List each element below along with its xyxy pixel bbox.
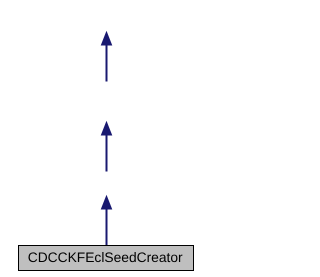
arrow 1 (top inheritance arrow) — [101, 31, 113, 82]
inheritance diagram for CDCCKFEclSeedCreator — [0, 0, 213, 277]
arrow 2 (middle inheritance arrow) — [101, 121, 113, 172]
svg-text:CDCCKFEclSeedCreator: CDCCKFEclSeedCreator — [28, 250, 183, 265]
class box CDCCKFEclSeedCreator — [19, 246, 194, 271]
arrow 3 (bottom inheritance arrow) — [101, 195, 113, 246]
